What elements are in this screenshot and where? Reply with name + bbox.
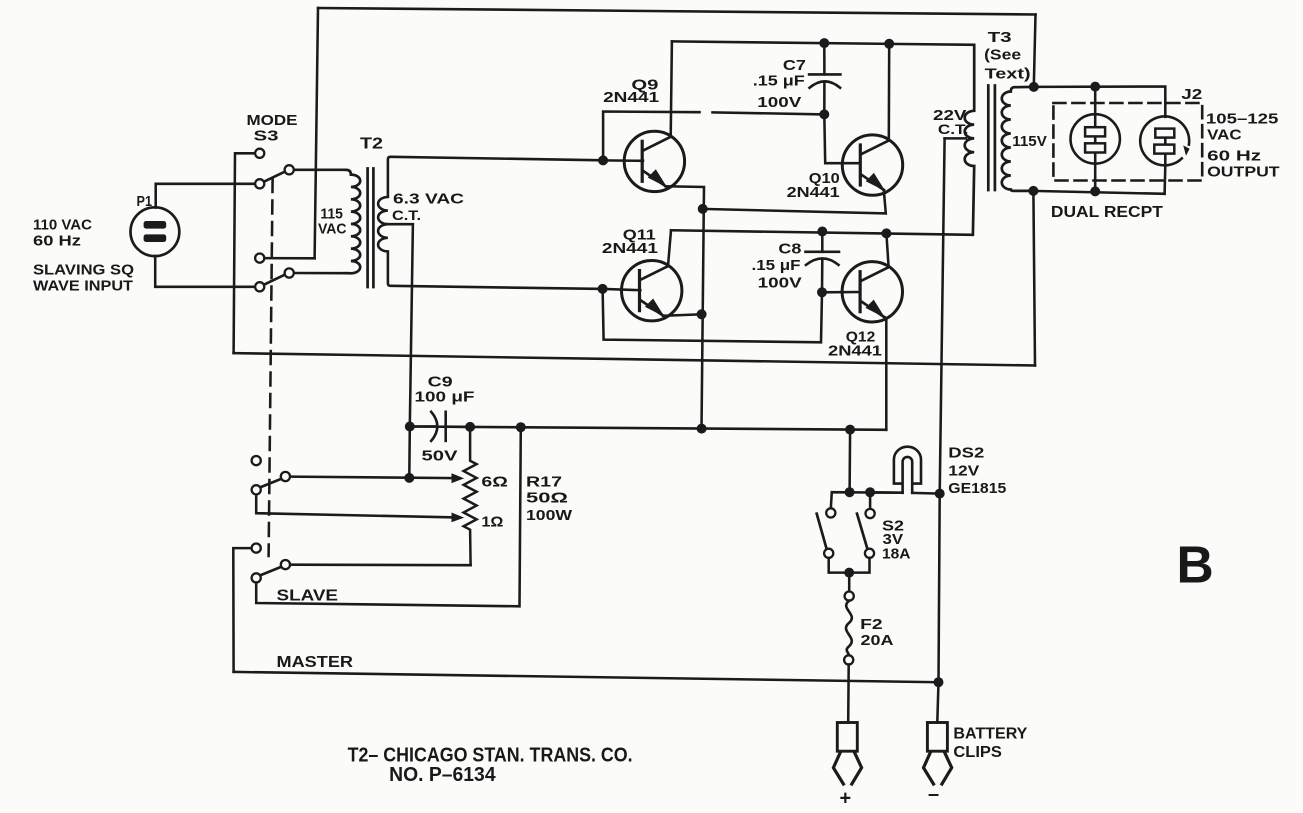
capacitor C7 .15uF 100V <box>809 74 840 87</box>
svg-text:CLIPS: CLIPS <box>953 744 1002 761</box>
capacitor C9 100uF 50V <box>431 412 446 441</box>
svg-text:T2– CHICAGO STAN. TRANS. CO.: T2– CHICAGO STAN. TRANS. CO. <box>348 744 633 766</box>
node emitter bus to +12V bus <box>697 424 707 434</box>
wire S3 deck4 throw to MASTER rail <box>233 548 251 672</box>
wire Q11 base lead <box>603 289 641 290</box>
node SLAVE return <box>516 422 526 432</box>
svg-text:2N441: 2N441 <box>602 240 658 257</box>
node S2 feed on +12V bus <box>845 425 855 435</box>
svg-text:C8: C8 <box>778 240 801 257</box>
svg-text:–: – <box>928 784 939 806</box>
switch S2 pole 1 blade <box>817 514 827 550</box>
svg-text:VAC: VAC <box>1207 127 1242 144</box>
wire S3 deck2 contact to T2 primary bottom <box>294 272 346 275</box>
wire Q11 cross-coupling down and right to C8 bottom <box>603 289 822 342</box>
node Q9 base / T2 secondary top <box>598 155 608 165</box>
wire J2 left receptacle bottom lead <box>1094 153 1097 192</box>
svg-text:BATTERY: BATTERY <box>953 726 1028 743</box>
wire S3 deck2 pole to P1 bottom <box>155 256 255 287</box>
node J2 left outlet bottom <box>1090 186 1100 196</box>
wire S2 bottom rail <box>829 558 870 573</box>
svg-text:105–125: 105–125 <box>1206 111 1279 128</box>
wire CT node down to 6-ohm tap <box>408 427 411 478</box>
node R17 top <box>465 422 475 432</box>
fuse F2 20A top terminal <box>845 592 854 601</box>
svg-text:60 Hz: 60 Hz <box>1207 147 1261 164</box>
svg-text:12V: 12V <box>948 462 979 479</box>
switch S3 ganged linkage dashed line <box>269 179 273 556</box>
node Q12 collector on rail <box>881 228 891 238</box>
wire C9 right lead <box>446 425 470 428</box>
wire inner top rail Q9-C7-Q10-T3 <box>672 41 974 44</box>
wire J2 right receptacle bottom lead <box>1163 154 1166 194</box>
wire T2 center tap <box>387 224 413 426</box>
node battery minus <box>934 677 944 687</box>
switch S3 deck2 throw contact <box>255 254 264 263</box>
node C7 top on collector rail <box>819 38 829 48</box>
wire top frame horizontal <box>318 8 1036 15</box>
switch S2 pole2 bottom contact <box>865 549 874 558</box>
transistor Q9 2N441 <box>624 131 684 191</box>
wire Q9 base from T2 (drawn with T2 secondary) + cross-coupling to C8... <box>603 112 824 161</box>
svg-text:WAVE INPUT: WAVE INPUT <box>33 279 133 295</box>
svg-text:B: B <box>1177 536 1214 594</box>
wire top frame right vertical to T3 secondary top <box>1034 15 1036 87</box>
wire C8 top lead <box>821 232 824 252</box>
svg-text:GE1815: GE1815 <box>948 480 1006 497</box>
switch S2 pole2 top contact <box>866 509 875 518</box>
wire top frame left vertical <box>315 8 318 258</box>
wire frame-to-S3-deck2-throw <box>264 257 315 260</box>
switch S3 deck3 unused throw contact <box>252 456 261 465</box>
node C8 top on collector rail <box>817 227 827 237</box>
wire S2 to F2 <box>848 573 851 592</box>
svg-text:F2: F2 <box>860 616 883 633</box>
wire 1-ohm tap with arrow <box>256 494 455 517</box>
svg-text:50V: 50V <box>422 447 458 464</box>
svg-text:115V: 115V <box>1012 133 1047 150</box>
wire Q12 collector vertical <box>886 233 888 267</box>
wire minus clip drop <box>937 682 938 722</box>
transformer T2 primary winding 115 VAC <box>346 170 360 274</box>
svg-text:T3: T3 <box>988 29 1012 46</box>
svg-text:J2: J2 <box>1181 86 1202 103</box>
wire C7 bottom lead <box>823 83 826 114</box>
node Q11 base / T2 secondary bottom <box>598 284 608 294</box>
wire Q11 collector vertical <box>668 230 671 266</box>
wire T3 secondary bottom down to long run <box>1033 191 1035 366</box>
svg-text:C7: C7 <box>783 57 806 74</box>
svg-text:P1: P1 <box>137 194 153 210</box>
switch S3 deck2 pole contact <box>255 282 264 291</box>
transformer T3 primary winding 22V C.T. <box>965 45 975 235</box>
node Q9-Q10 emitters <box>698 204 708 214</box>
wire battery minus rail (MASTER return) <box>234 672 939 682</box>
receptacle J2 right outlet with rotation arrow <box>1140 116 1189 165</box>
svg-text:50Ω: 50Ω <box>526 489 568 506</box>
svg-text:SLAVE: SLAVE <box>277 588 339 605</box>
wire J2 top rail <box>1034 87 1166 117</box>
fuse F2 wavy element <box>846 601 852 656</box>
svg-text:SLAVING SQ: SLAVING SQ <box>33 263 134 279</box>
svg-text:100V: 100V <box>757 94 801 111</box>
node S2 bottom tee <box>844 568 854 578</box>
wire C8 bottom lead <box>821 260 824 292</box>
svg-text:100W: 100W <box>526 507 573 524</box>
receptacle J2 left outlet <box>1071 114 1120 163</box>
switch S2 pole1 bottom contact <box>824 549 833 558</box>
switch S3 deck2 blade contact <box>285 268 294 277</box>
wire Q9 emitter run right and down emitter bus <box>666 186 705 429</box>
transistor Q11 2N441 <box>622 261 682 321</box>
svg-text:C.T.: C.T. <box>392 207 421 223</box>
transformer T2 secondary winding 6.3 VAC with leads to Q9/Q11 bases <box>378 157 603 289</box>
wire Q12 emitter down to +12V bus <box>884 317 887 430</box>
svg-text:MASTER: MASTER <box>277 654 354 671</box>
node Q11 emitter <box>697 309 707 319</box>
svg-text:1Ω: 1Ω <box>481 513 503 530</box>
node C7 bottom / Q10 base <box>819 109 829 119</box>
wire Q12 base lead <box>822 291 860 294</box>
svg-text:C.T.: C.T. <box>938 121 969 137</box>
switch S3 deck4 throw contact <box>252 544 261 553</box>
switch S3 deck1 blade contact <box>285 165 294 174</box>
wire S3 deck1 contact to T2 primary top <box>294 169 346 172</box>
transformer T3 secondary winding 115V <box>1002 87 1034 191</box>
wire T3 center-tap line down to battery minus <box>939 138 945 682</box>
transformer T3 core <box>988 86 995 191</box>
switch S3 deck3 pole contact <box>252 485 261 494</box>
wire J2 bottom rail <box>1033 191 1164 194</box>
battery clip minus <box>924 723 952 785</box>
wire DS2 right rail to CT line <box>912 492 940 495</box>
wire Q10 collector vertical <box>888 44 891 141</box>
wire C9 left lead <box>410 425 437 428</box>
svg-text:MODE: MODE <box>247 112 298 129</box>
svg-text:T2: T2 <box>360 136 383 153</box>
node DS2 right on CT line <box>935 489 945 499</box>
wire Q11 emitter to emitter bus <box>663 314 702 316</box>
node T3 secondary top <box>1029 82 1039 92</box>
node Q10 collector on rail <box>884 39 894 49</box>
wire Q10 emitter down then left to emitter bus <box>703 190 886 213</box>
svg-text:NO. P–6134: NO. P–6134 <box>389 764 496 786</box>
wire S3 deck1 pole to P1 top <box>156 184 256 208</box>
switch S3 deck1 top throw contact <box>255 149 264 158</box>
svg-text:110 VAC: 110 VAC <box>33 218 93 234</box>
node J2 left outlet top <box>1090 82 1100 92</box>
lamp DS2 filament loop <box>903 457 913 493</box>
svg-text:OUTPUT: OUTPUT <box>1207 164 1280 181</box>
fuse F2 bottom terminal <box>844 655 853 664</box>
switch S3 deck3 blade <box>260 479 281 488</box>
wire F2 bottom through minus rail to + battery clip <box>847 665 850 723</box>
wire S3 deck4 pole to SLAVE run <box>256 427 521 606</box>
wire J2 left receptacle top lead <box>1094 87 1097 128</box>
switch S3 deck2 blade <box>264 274 286 284</box>
wire +12V feedback bus (C9 node to Q12 emitter) <box>410 427 887 430</box>
svg-text:DS2: DS2 <box>948 445 984 462</box>
svg-text:2N441: 2N441 <box>787 184 840 201</box>
wire S2 top rail <box>831 492 903 509</box>
switch S3 deck1 pole contact <box>255 179 264 188</box>
battery clip plus <box>833 723 861 785</box>
wire DS2 left rail from S2 junction <box>870 491 903 494</box>
node C8 bottom / Q12 base <box>817 287 827 297</box>
switch S3 deck1 blade <box>264 171 286 181</box>
wire C7 top lead <box>823 43 826 74</box>
svg-text:100V: 100V <box>758 275 802 292</box>
svg-text:DUAL RECPT: DUAL RECPT <box>1051 204 1164 221</box>
svg-text:20A: 20A <box>861 632 894 649</box>
wire Q9 collector vertical <box>671 41 672 136</box>
wire T3 primary center tap <box>945 137 966 140</box>
svg-text:6.3 VAC: 6.3 VAC <box>393 191 464 208</box>
svg-text:S3: S3 <box>254 128 279 145</box>
node T2 CT / C9 left <box>405 422 415 432</box>
switch S3 deck4 blade <box>260 567 281 576</box>
svg-text:Text): Text) <box>985 65 1031 82</box>
svg-text:.15 μF: .15 μF <box>753 73 805 90</box>
wire collector rail Q11-C8-Q12-T3 primary bottom <box>671 230 972 235</box>
capacitor C8 .15uF 100V <box>806 252 840 265</box>
node S2 pole2 top / DS2 left <box>865 487 875 497</box>
transformer T2 core <box>368 169 374 288</box>
lamp DS2 12V GE1815 envelope <box>894 447 921 484</box>
wire long neutral run S3 to T3 secondary bottom <box>234 353 1035 365</box>
wire S3 deck1 top throw to long neutral run <box>234 153 256 353</box>
wire C7 junction down to Q10 base <box>824 114 859 163</box>
svg-text:2N441: 2N441 <box>828 342 882 359</box>
switch S3 deck4 blade contact <box>281 560 290 569</box>
node 6-ohm tap tee <box>404 473 414 483</box>
node S2 pole1 top <box>845 487 855 497</box>
node T3 secondary bottom <box>1028 186 1038 196</box>
svg-text:6Ω: 6Ω <box>481 473 508 490</box>
svg-text:VAC: VAC <box>318 221 347 238</box>
switch S3 deck3 blade contact <box>281 472 290 481</box>
resistor R17 50ohm 100W <box>464 427 477 565</box>
switch S3 deck4 pole contact <box>252 573 261 582</box>
J2 dashed enclosure box <box>1053 103 1202 181</box>
transistor Q12 2N441 <box>842 262 902 322</box>
wire 6-ohm tap with arrow <box>290 477 456 479</box>
svg-text:(See: (See <box>984 47 1021 64</box>
svg-text:100 μF: 100 μF <box>415 389 475 406</box>
transistor Q10 2N441 <box>842 135 902 195</box>
plug P1 <box>131 207 180 256</box>
svg-text:+: + <box>840 788 852 810</box>
svg-text:2N441: 2N441 <box>603 89 659 106</box>
wire R17 bottom to SLAVE deck contact <box>290 563 471 566</box>
svg-text:18A: 18A <box>882 546 911 563</box>
svg-text:R17: R17 <box>526 473 562 490</box>
switch S2 pole 2 blade <box>857 514 868 550</box>
switch S2 pole1 top contact <box>826 508 835 517</box>
wire Q9 base lead <box>603 159 643 162</box>
svg-text:60 Hz: 60 Hz <box>33 234 81 250</box>
svg-text:.15 μF: .15 μF <box>752 257 801 274</box>
wire S2 feed from emitter bus <box>848 430 851 492</box>
